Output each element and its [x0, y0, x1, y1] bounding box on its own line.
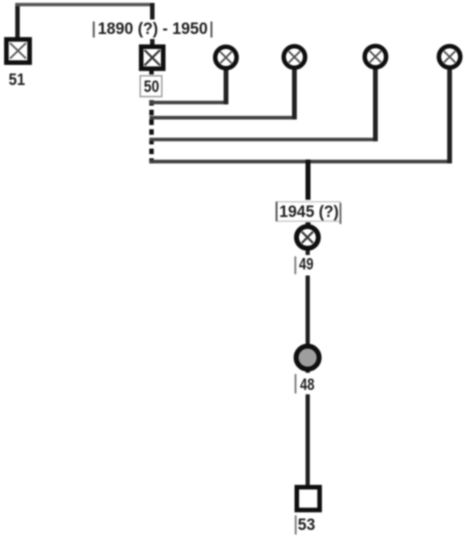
svg-text:51: 51: [9, 70, 26, 89]
svg-text:50: 50: [144, 77, 160, 96]
svg-text:49: 49: [299, 255, 314, 274]
svg-text:48: 48: [300, 375, 315, 394]
svg-text:1890 (?) - 1950: 1890 (?) - 1950: [98, 19, 208, 38]
svg-text:1945 (?): 1945 (?): [279, 202, 339, 221]
svg-text:53: 53: [298, 515, 316, 534]
